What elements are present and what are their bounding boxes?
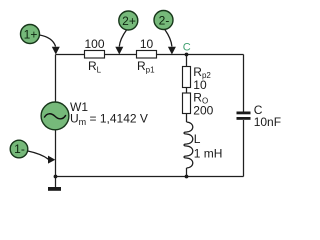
svg-text:200: 200: [193, 104, 213, 118]
svg-text:1-: 1-: [14, 142, 25, 156]
svg-text:1 mH: 1 mH: [194, 146, 223, 160]
svg-text:2+: 2+: [122, 14, 136, 28]
svg-text:10nF: 10nF: [254, 115, 281, 129]
svg-text:L: L: [194, 132, 201, 146]
svg-text:2-: 2-: [159, 13, 170, 27]
svg-text:100: 100: [84, 37, 104, 51]
svg-text:1+: 1+: [24, 27, 38, 41]
svg-text:C: C: [183, 42, 191, 54]
svg-text:10: 10: [140, 37, 154, 51]
